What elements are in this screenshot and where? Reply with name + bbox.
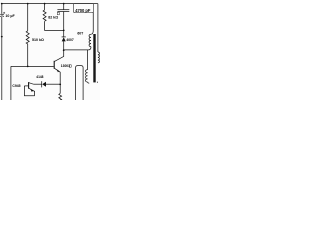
wire winding A top lead	[91, 12, 93, 34]
diode D2 4148 cathode bar	[41, 81, 43, 87]
capacitor C1 plus sign	[3, 12, 5, 14]
resistor R2 82k zigzag	[43, 10, 46, 21]
node dot 510k top	[27, 3, 29, 5]
wire collector to transformer	[64, 49, 89, 51]
inductor winding A	[89, 34, 91, 46]
diode D1 4007 triangle	[62, 37, 66, 41]
svg-text:13003: 13003	[61, 64, 70, 68]
wire top rail	[2, 3, 98, 5]
svg-text:60T: 60T	[77, 32, 84, 36]
wire 82k to node	[45, 21, 64, 30]
svg-text:s: s	[97, 81, 99, 84]
inductor winding C right	[98, 52, 100, 63]
svg-text:510 kΩ: 510 kΩ	[32, 38, 44, 42]
wire base Q2 down leg	[24, 86, 34, 96]
transistor Q2 collector	[29, 83, 34, 85]
node dot 82k-cap junction	[63, 30, 65, 32]
node dot left rail mid	[1, 36, 3, 38]
diode D2 4148 triangle	[42, 82, 46, 87]
node dot 82k top	[44, 3, 46, 5]
transistor Q2 emitter arrow	[30, 89, 33, 92]
wire collector jog	[55, 50, 64, 61]
transistor Q1 13003 base bar	[53, 61, 55, 69]
wire base Q1	[28, 65, 54, 67]
wire node A down leg	[10, 66, 12, 100]
wire left rail upper	[1, 4, 3, 14]
transistor Q2 emitter	[29, 88, 35, 95]
wire node to diode	[63, 30, 65, 36]
node dot center top	[63, 3, 65, 5]
wire 82k branch upper	[44, 4, 46, 10]
wire winding A bottom hook	[88, 47, 91, 50]
wire right rail upper	[97, 4, 99, 52]
svg-text:82 kΩ: 82 kΩ	[48, 15, 58, 19]
transistor Q1 emitter	[55, 68, 61, 84]
svg-text:C945: C945	[12, 84, 20, 88]
lamp loop	[76, 66, 84, 100]
wire winding B bottom hook	[88, 82, 90, 83]
transistor Q2 C945 base bar	[28, 82, 30, 89]
svg-text:4148: 4148	[36, 75, 43, 79]
small square marker right	[69, 65, 71, 67]
wire center column upper	[63, 4, 65, 10]
inductor winding B	[85, 70, 87, 82]
node dot top-left	[1, 3, 3, 5]
wire node A left	[11, 65, 28, 67]
wire 510k branch upper	[27, 4, 29, 31]
svg-text:4700 pF: 4700 pF	[75, 8, 91, 13]
wire collector C945 to diode	[33, 83, 41, 85]
node dot B emitter junction	[59, 84, 61, 86]
diode D1 4007 cathode bar	[62, 36, 66, 38]
transformer core bar	[93, 34, 95, 82]
label box 4700pF	[74, 4, 94, 13]
wire left rail lower	[1, 17, 3, 100]
wire emitter to resistor	[59, 84, 61, 93]
resistor R1 510k zigzag	[26, 31, 29, 44]
capacitor C1 10uF plates	[0, 13, 4, 15]
wire 510k branch lower	[27, 44, 29, 67]
svg-text:10 µF: 10 µF	[5, 14, 15, 18]
wire diode to collector node	[63, 41, 65, 50]
wire base Q2	[24, 85, 28, 87]
svg-text:4007: 4007	[66, 38, 74, 42]
wire diode 4148 to node B	[46, 83, 60, 85]
node dot A base junction	[27, 66, 29, 68]
wire cap to node	[63, 12, 65, 31]
small square marker left	[57, 12, 59, 15]
wire winding B top lead	[87, 50, 89, 70]
resistor R3 emitter zigzag	[59, 93, 62, 100]
transistor Q1 emitter arrow	[57, 69, 60, 72]
capacitor C2 4700pF plates	[57, 9, 69, 11]
node dot collector junction	[63, 49, 65, 51]
